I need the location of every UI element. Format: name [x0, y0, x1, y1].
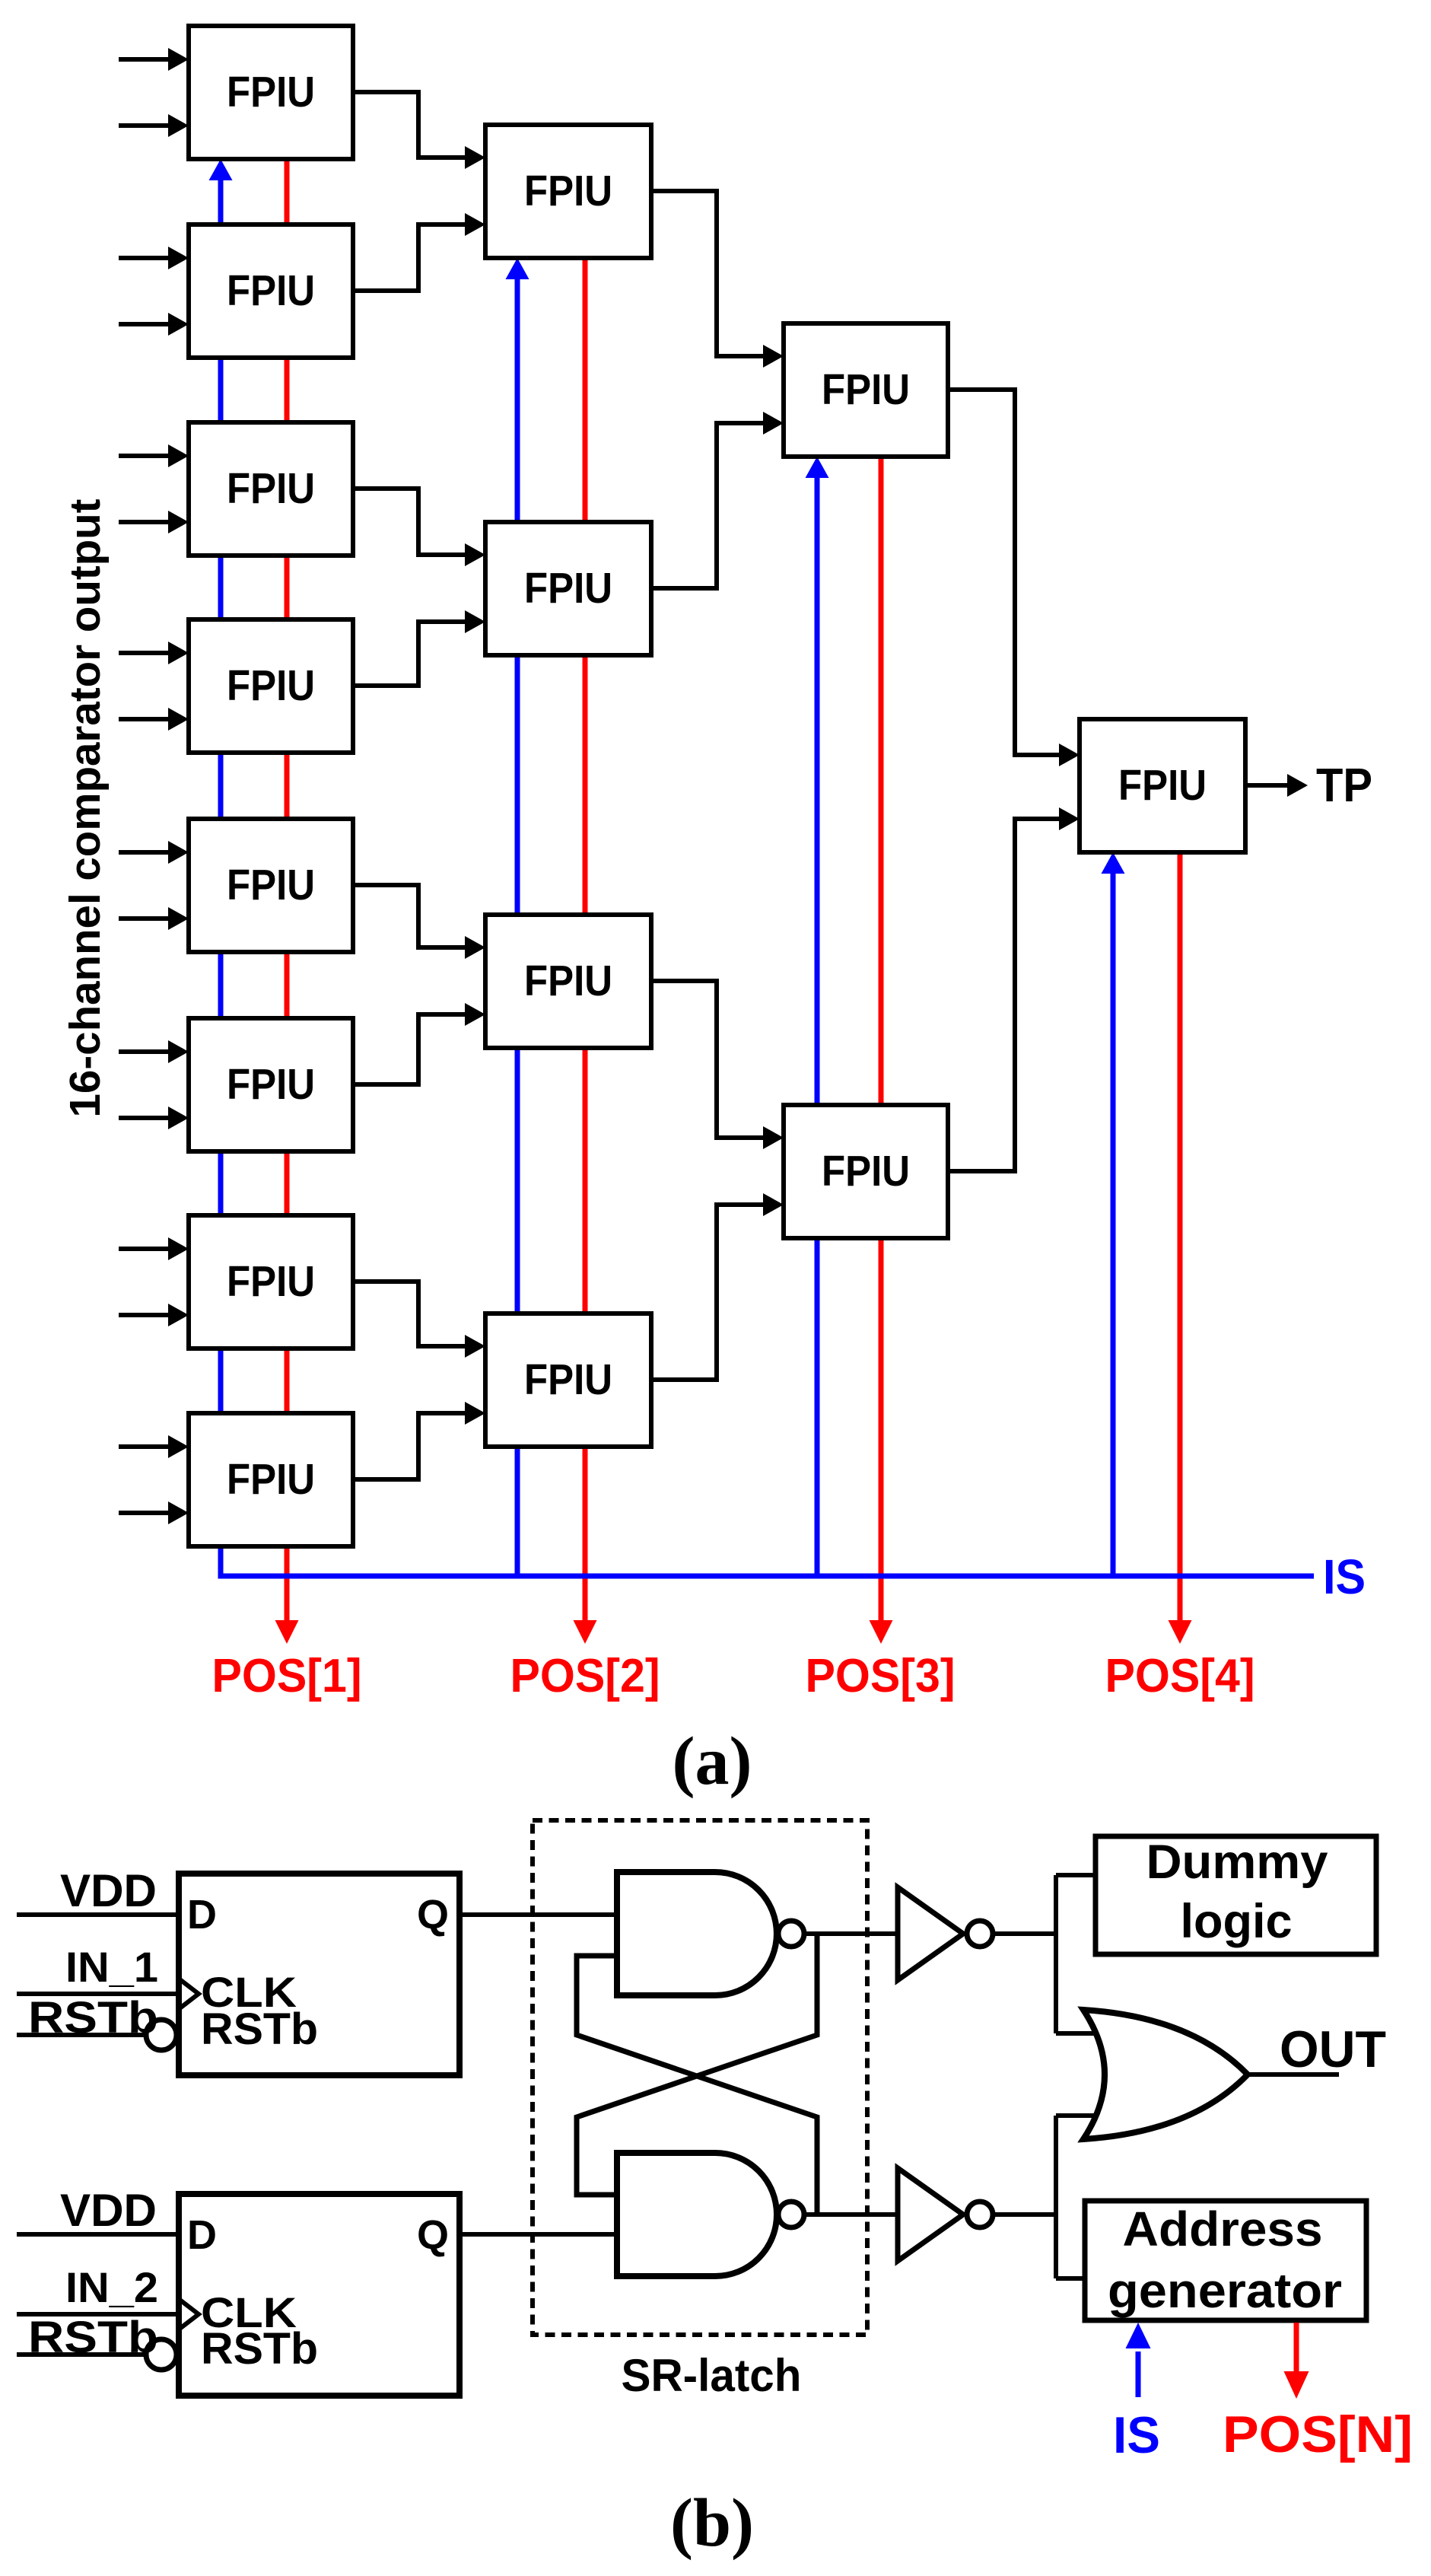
wire: FPIU U7 output to FPIU U12 input 1	[353, 1282, 466, 1346]
net POS[4]: column 4 red line	[1178, 852, 1183, 1623]
wire: FPIU U14 output to FPIU U15 input 2	[948, 819, 1060, 1171]
wire: comparator input 16 into FPIU U8	[119, 1511, 169, 1515]
NAND gate G1 output bubble	[778, 1921, 804, 1947]
svg-text:POS[2]: POS[2]	[510, 1650, 660, 1702]
wire: FPIU U15 output to TP	[1245, 783, 1288, 788]
wire: FPIU U9 output to FPIU U13 input 1	[651, 191, 764, 356]
svg-text:FPIU: FPIU	[822, 1147, 910, 1196]
wire: comparator input 12 into FPIU U6	[119, 1116, 169, 1120]
NAND gate G1 body	[617, 1872, 777, 1995]
svg-text:FPIU: FPIU	[524, 167, 612, 215]
inverter INV2 output bubble	[967, 2202, 993, 2227]
wire: comparator input 11 into FPIU U6	[119, 1049, 169, 1054]
wire: NAND G2 output feedback to NAND G1 input 2	[577, 1956, 817, 2215]
svg-text:VDD: VDD	[60, 1865, 157, 1916]
FPIU block U14 (col3 row2)	[784, 1105, 948, 1238]
wire: FPIU U5 output to FPIU U11 input 1	[353, 885, 466, 947]
svg-text:FPIU: FPIU	[227, 861, 315, 909]
svg-text:FPIU: FPIU	[227, 661, 315, 710]
svg-text:VDD: VDD	[60, 2185, 157, 2236]
net IS: column 3 riser (blue)	[815, 475, 820, 1576]
FPIU block U15 (col4)	[1080, 719, 1245, 852]
wire: comparator input 3 into FPIU U2	[119, 256, 169, 260]
wire: comparator input 7 into FPIU U4	[119, 651, 169, 655]
inverter INV1 triangle	[898, 1887, 963, 1980]
net IS: blue arrow into Address generator	[1136, 2352, 1141, 2397]
svg-text:Dummy: Dummy	[1146, 1836, 1328, 1889]
inverter INV1 output bubble	[967, 1921, 993, 1947]
D flip-flop U16 body	[179, 1874, 460, 2075]
pin CLK of U17 with clock triangle	[179, 2299, 199, 2329]
wire: node B to Address generator block	[1056, 2276, 1084, 2281]
svg-text:Q: Q	[417, 2212, 449, 2258]
svg-text:generator: generator	[1108, 2263, 1342, 2318]
wire: FPIU U8 output to FPIU U12 input 2	[353, 1413, 466, 1479]
svg-text:RSTb: RSTb	[28, 1993, 158, 2043]
wire: comparator input 1 into FPIU U1	[119, 57, 169, 62]
wire: node A to Dummy logic block	[1056, 1873, 1096, 1877]
wire: comparator input 9 into FPIU U5	[119, 850, 169, 855]
svg-text:FPIU: FPIU	[227, 464, 315, 513]
svg-text:SR-latch: SR-latch	[622, 2350, 802, 2401]
wire: FPIU U13 output to FPIU U15 input 1	[948, 390, 1060, 755]
wire: NAND G1 output feedback to NAND G2 input 1	[577, 1934, 817, 2195]
svg-text:FPIU: FPIU	[524, 957, 612, 1005]
wire: comparator input 14 into FPIU U7	[119, 1313, 169, 1317]
svg-text:POS[4]: POS[4]	[1105, 1650, 1255, 1702]
wire: OR gate G3 output to OUT	[1248, 2072, 1339, 2077]
net IS: column 1 riser (blue)	[218, 177, 224, 1576]
wire: comparator input 4 into FPIU U2	[119, 322, 169, 326]
svg-text:RSTb: RSTb	[201, 2004, 318, 2054]
svg-text:RSTb: RSTb	[201, 2324, 318, 2374]
wire: node A to OR gate G3 input 1	[1056, 2031, 1103, 2036]
wire: comparator input 5 into FPIU U3	[119, 454, 169, 458]
wire: comparator input 2 into FPIU U1	[119, 123, 169, 128]
svg-text:Q: Q	[417, 1892, 449, 1938]
node B vertical: to OR input 2 and Address generator	[1054, 2116, 1058, 2278]
svg-text:OUT: OUT	[1280, 2020, 1386, 2078]
FPIU block U7 (col1 row7)	[189, 1215, 353, 1348]
svg-text:POS[1]: POS[1]	[212, 1650, 362, 1702]
wire: FPIU U4 output to FPIU U10 input 2	[353, 622, 466, 686]
svg-text:D: D	[187, 2212, 217, 2258]
svg-text:D: D	[187, 1892, 217, 1938]
inverter INV2 triangle	[898, 2168, 963, 2261]
svg-text:IS: IS	[1323, 1549, 1366, 1604]
svg-text:IN_2: IN_2	[65, 2263, 158, 2311]
D flip-flop U17 body	[179, 2194, 460, 2396]
net POS[3]: column 3 red line	[879, 457, 884, 1623]
pin RSTb inversion bubble of U17	[146, 2339, 176, 2370]
svg-text:FPIU: FPIU	[227, 1455, 315, 1504]
svg-text:FPIU: FPIU	[1118, 761, 1207, 810]
net IS: column 2 riser (blue)	[515, 276, 520, 1576]
svg-text:IS: IS	[1113, 2406, 1160, 2464]
wire: INV2 output to node B	[993, 2212, 1056, 2217]
OR gate G3	[1083, 2010, 1248, 2139]
wire: NAND G2 output to inverter INV2	[804, 2212, 898, 2217]
svg-text:(a): (a)	[673, 1724, 752, 1799]
node A vertical: to Dummy logic and OR input 1	[1054, 1875, 1058, 2033]
svg-text:IN_1: IN_1	[65, 1943, 158, 1991]
wire: VDD input to U16	[17, 1912, 179, 1917]
wire: IN_2 clock input to U17	[17, 2312, 179, 2316]
net POS[1]: column 1 red line	[285, 159, 290, 1623]
FPIU block U10 (col2 row2)	[485, 522, 651, 655]
wire: comparator input 15 into FPIU U8	[119, 1444, 169, 1449]
svg-text:(b): (b)	[670, 2485, 754, 2561]
NAND gate G2 body	[617, 2153, 777, 2276]
SR-latch dashed boundary box	[533, 1820, 867, 2335]
NAND gate G2 output bubble	[778, 2202, 804, 2227]
FPIU block U6 (col1 row6)	[189, 1018, 353, 1151]
svg-text:FPIU: FPIU	[227, 1060, 315, 1109]
pin RSTb inversion bubble of U16	[146, 2020, 176, 2050]
FPIU block U13 (col3 row1)	[784, 323, 948, 457]
svg-text:16-channel comparator output: 16-channel comparator output	[61, 498, 110, 1117]
wire: comparator input 8 into FPIU U4	[119, 717, 169, 721]
wire: FPIU U10 output to FPIU U13 input 2	[651, 423, 764, 588]
wire: node B to OR gate G3 input 2	[1056, 2113, 1103, 2118]
wire: U16 Q output to NAND G1 input 1	[460, 1912, 617, 1917]
net IS: horizontal bus	[218, 1574, 1315, 1579]
svg-text:FPIU: FPIU	[822, 365, 910, 414]
svg-text:logic: logic	[1180, 1895, 1292, 1948]
wire: FPIU U2 output to FPIU U9 input 2	[353, 224, 466, 291]
FPIU block U12 (col2 row4)	[485, 1313, 651, 1447]
FPIU block U1 (col1 row1)	[189, 26, 353, 159]
net IS: column 4 riser (blue)	[1111, 871, 1116, 1576]
wire: FPIU U6 output to FPIU U11 input 2	[353, 1014, 466, 1084]
FPIU block U9 (col2 row1)	[485, 125, 651, 258]
wire: comparator input 13 into FPIU U7	[119, 1247, 169, 1251]
wire: comparator input 6 into FPIU U3	[119, 520, 169, 524]
wire: FPIU U11 output to FPIU U14 input 1	[651, 981, 764, 1138]
svg-text:FPIU: FPIU	[227, 68, 315, 116]
svg-text:RSTb: RSTb	[28, 2313, 158, 2362]
wire: INV1 output to node A	[993, 1931, 1056, 1936]
wire: FPIU U12 output to FPIU U14 input 2	[651, 1205, 764, 1380]
svg-text:POS[3]: POS[3]	[806, 1650, 956, 1702]
FPIU block U4 (col1 row4)	[189, 619, 353, 753]
svg-text:FPIU: FPIU	[227, 1257, 315, 1306]
net POS[2]: column 2 red line	[583, 258, 588, 1623]
net POS[N]: red arrow from Address generator	[1294, 2323, 1299, 2374]
wire: NAND G1 output to inverter INV1	[804, 1931, 898, 1936]
FPIU block U5 (col1 row5)	[189, 819, 353, 952]
wire: U17 Q output to NAND G2 input 2	[460, 2232, 617, 2237]
wire: RSTb input to U16	[17, 2033, 146, 2037]
wire: FPIU U1 output to FPIU U9 input 1	[353, 92, 466, 158]
wire: IN_1 clock input to U16	[17, 1992, 179, 1996]
wire: comparator input 10 into FPIU U5	[119, 916, 169, 921]
FPIU block U8 (col1 row8)	[189, 1413, 353, 1546]
svg-text:POS[N]: POS[N]	[1223, 2406, 1413, 2463]
FPIU block U11 (col2 row3)	[485, 915, 651, 1048]
svg-text:FPIU: FPIU	[524, 1355, 612, 1404]
svg-text:FPIU: FPIU	[524, 564, 612, 613]
FPIU block U2 (col1 row2)	[189, 224, 353, 358]
pin CLK of U16 with clock triangle	[179, 1979, 199, 2009]
Address generator block	[1085, 2201, 1366, 2320]
svg-text:Address: Address	[1123, 2202, 1323, 2256]
svg-text:FPIU: FPIU	[227, 266, 315, 315]
wire: FPIU U3 output to FPIU U10 input 1	[353, 489, 466, 555]
svg-text:TP: TP	[1316, 759, 1372, 812]
wire: VDD input to U17	[17, 2232, 179, 2237]
Dummy logic block	[1096, 1836, 1376, 1954]
wire: RSTb input to U17	[17, 2352, 146, 2357]
FPIU block U3 (col1 row3)	[189, 422, 353, 556]
